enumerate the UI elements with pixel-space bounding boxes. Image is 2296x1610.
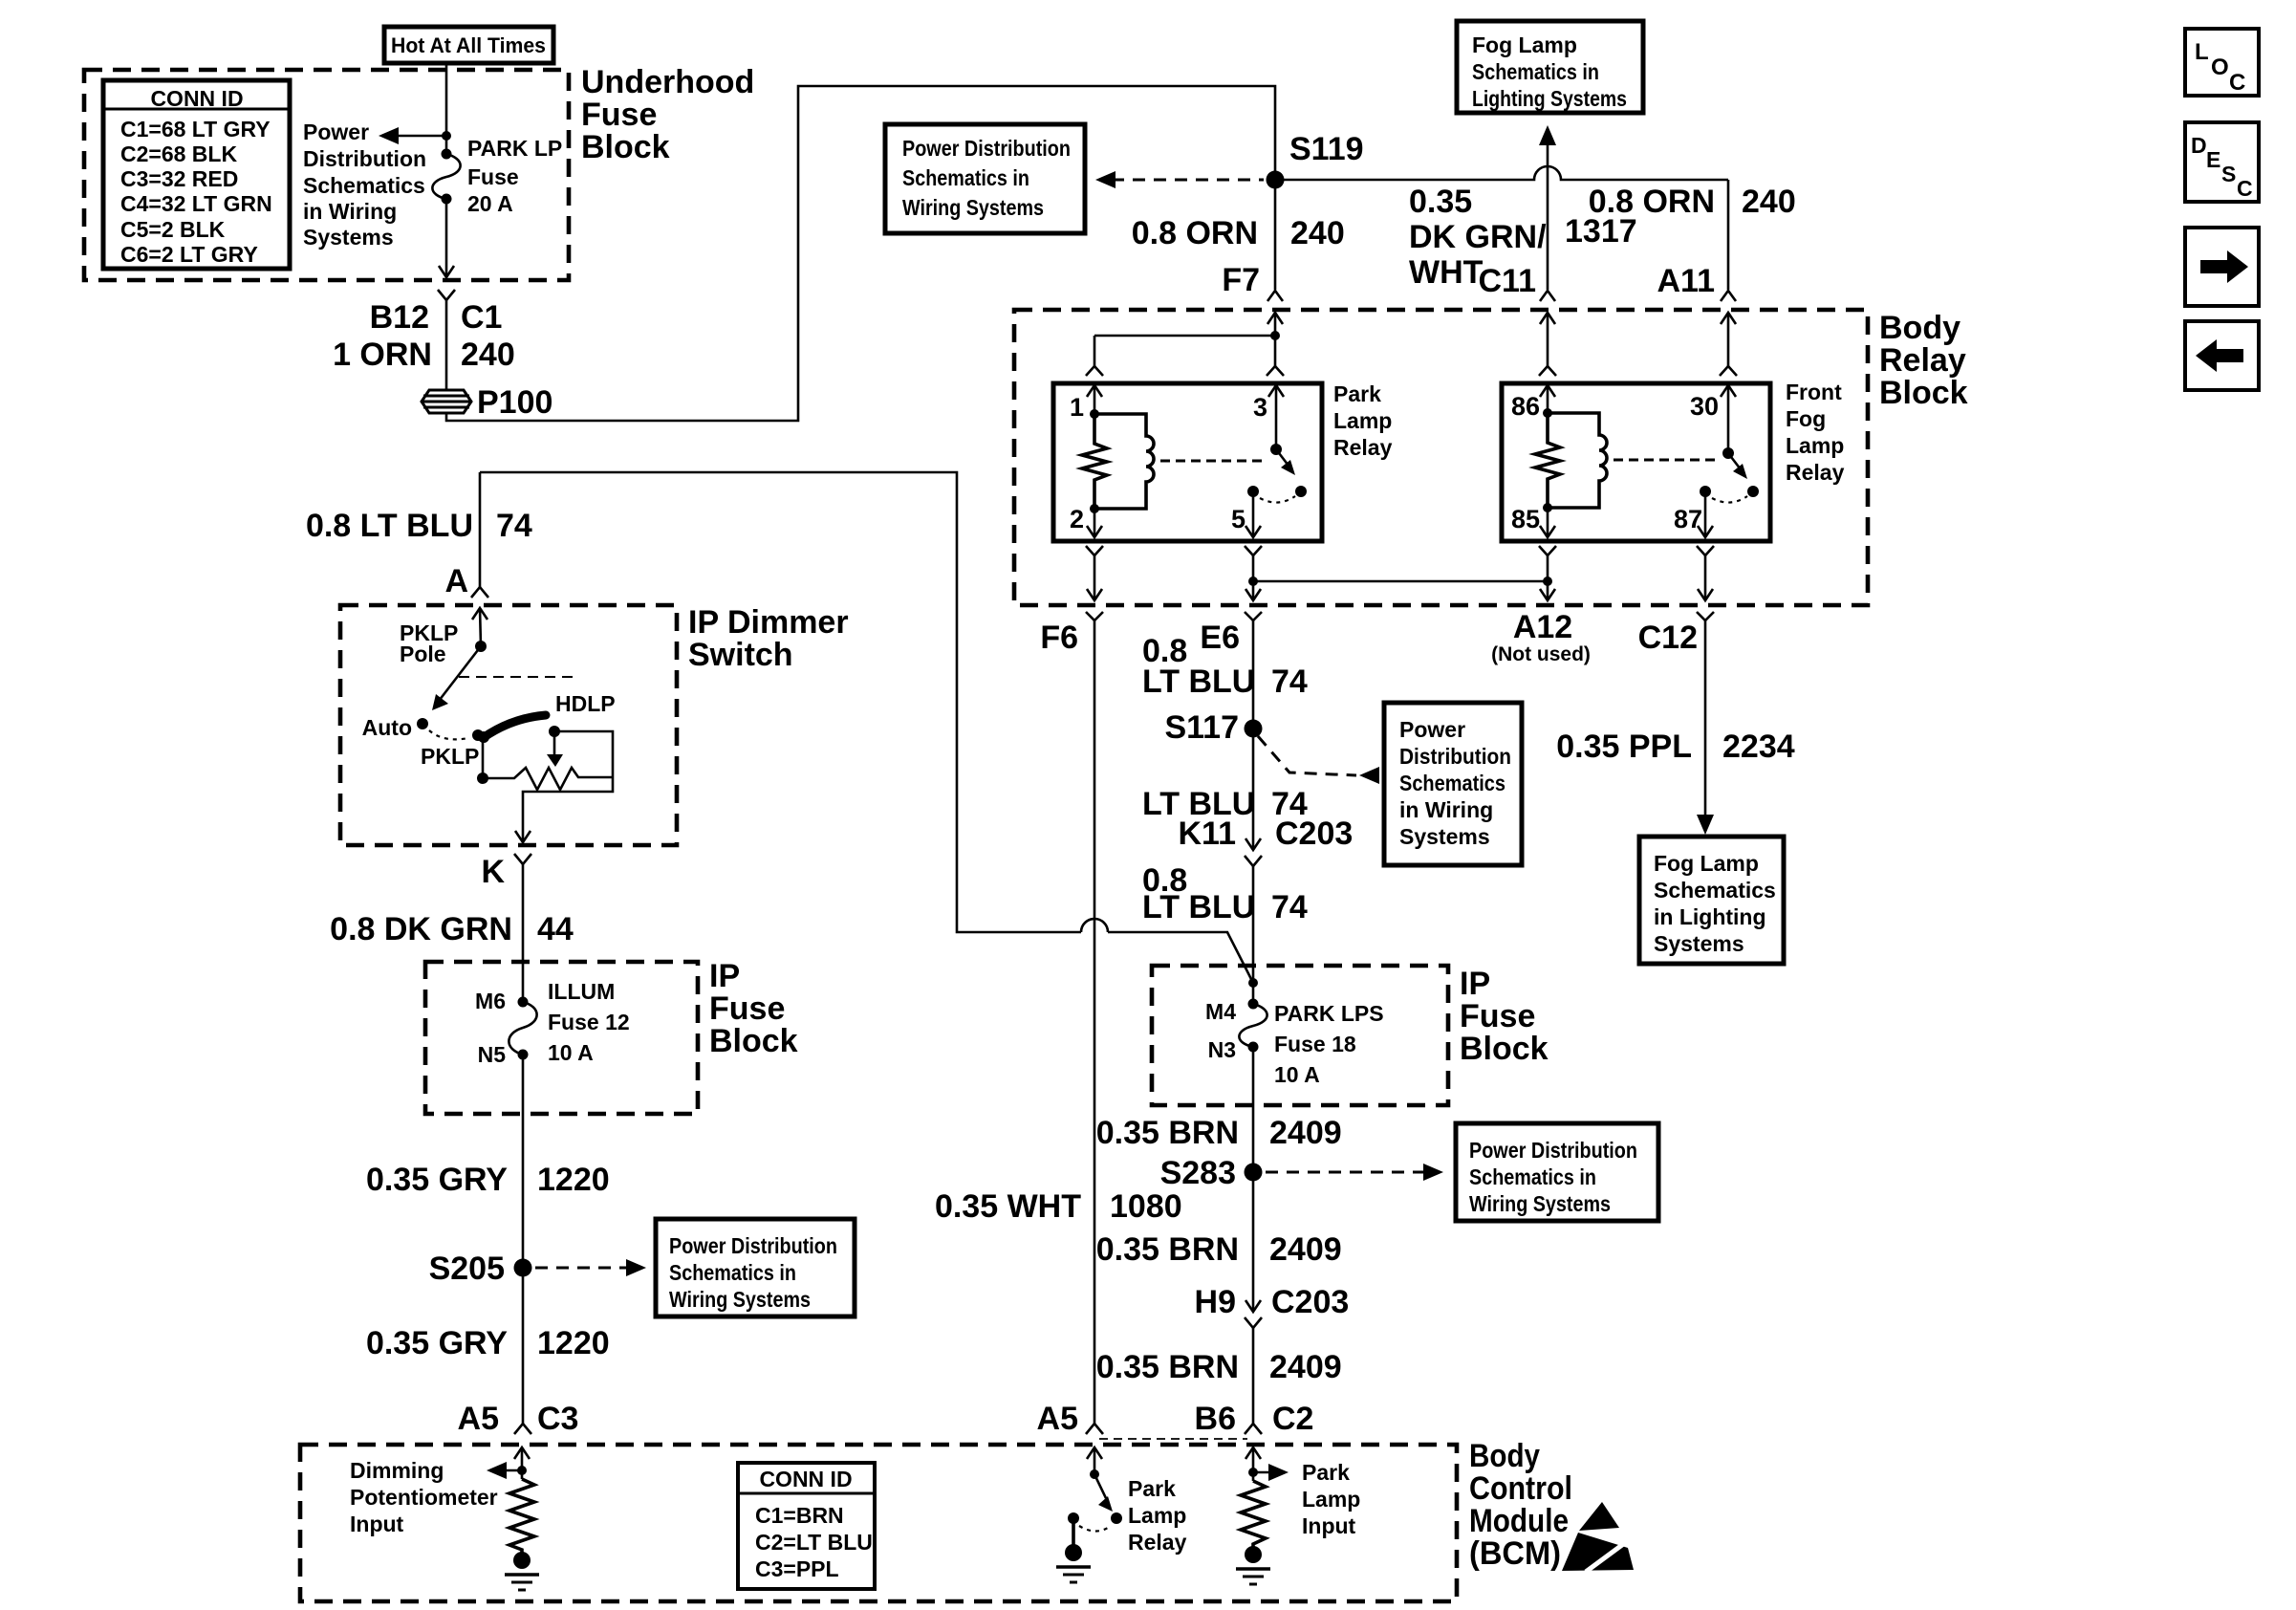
Park Lamp Relay box <box>1053 381 1393 541</box>
junction of pin1 link on F7 wire <box>1094 331 1280 366</box>
svg-text:A12: A12 <box>1513 609 1572 645</box>
svg-text:C2=68 BLK: C2=68 BLK <box>120 141 237 166</box>
socket fork above pin 1 <box>1086 366 1103 376</box>
svg-text:Hot At All Times: Hot At All Times <box>391 33 546 57</box>
dashed position line <box>459 676 575 678</box>
svg-text:ILLUM: ILLUM <box>548 979 615 1004</box>
svg-text:0.35 PPL: 0.35 PPL <box>1556 729 1692 765</box>
wire H9 down to BCM <box>1037 1328 1342 1437</box>
Fog Lamp Schematics ref box (bottom) <box>1639 837 1784 964</box>
svg-text:0.35: 0.35 <box>1409 184 1472 220</box>
svg-text:74: 74 <box>1271 664 1308 700</box>
connector A fork <box>471 587 488 620</box>
svg-text:Fuse 18: Fuse 18 <box>1274 1032 1356 1056</box>
svg-text:PARK LP: PARK LP <box>467 136 562 161</box>
svg-text:Power: Power <box>1399 717 1465 742</box>
svg-text:Park: Park <box>1128 1476 1176 1501</box>
pin 1 <box>1070 385 1102 422</box>
svg-text:5: 5 <box>1231 505 1245 533</box>
pin 86 <box>1511 385 1555 421</box>
svg-text:F6: F6 <box>1040 620 1078 656</box>
svg-text:S283: S283 <box>1160 1155 1236 1191</box>
wire A11 down from horizontal <box>1589 180 1796 299</box>
socket fork below park relay pin 2 <box>1086 546 1103 555</box>
svg-text:S117: S117 <box>1164 709 1239 746</box>
svg-text:1 ORN: 1 ORN <box>333 337 432 373</box>
socket fork above pin 3 <box>1267 366 1284 376</box>
svg-text:A11: A11 <box>1657 263 1716 299</box>
svg-text:0.35 BRN: 0.35 BRN <box>1096 1231 1239 1268</box>
park relay coil <box>1094 414 1154 509</box>
svg-text:Wiring Systems: Wiring Systems <box>669 1287 811 1312</box>
BCM dimming potentiometer input <box>350 1447 530 1536</box>
svg-text:C203: C203 <box>1271 1284 1349 1320</box>
BCM park lamp input <box>1245 1447 1360 1538</box>
svg-text:Lighting Systems: Lighting Systems <box>1472 86 1627 111</box>
svg-text:Systems: Systems <box>1654 931 1744 956</box>
svg-text:IP Dimmer: IP Dimmer <box>688 604 849 641</box>
svg-text:240: 240 <box>461 337 515 373</box>
splice S117 <box>1164 709 1262 746</box>
wire F6 down to BCM <box>1094 620 1096 1424</box>
svg-text:C11: C11 <box>1479 263 1537 299</box>
pin 30 and switch arm <box>1690 385 1759 497</box>
svg-text:S: S <box>2221 162 2236 186</box>
svg-text:H9: H9 <box>1195 1284 1236 1320</box>
svg-text:86: 86 <box>1511 392 1540 421</box>
svg-text:Lamp: Lamp <box>1302 1487 1360 1512</box>
svg-text:Pole: Pole <box>400 642 446 666</box>
svg-text:2: 2 <box>1070 505 1084 533</box>
svg-text:E: E <box>2206 147 2220 172</box>
svg-text:Systems: Systems <box>303 225 394 250</box>
connector B6/C2 fork at BCM top <box>1245 1424 1262 1434</box>
svg-text:Wiring Systems: Wiring Systems <box>1469 1191 1611 1216</box>
svg-text:Relay: Relay <box>1128 1530 1187 1555</box>
svg-text:Body: Body <box>1879 310 1960 346</box>
svg-text:85: 85 <box>1511 505 1540 533</box>
svg-text:Power Distribution: Power Distribution <box>1469 1138 1637 1163</box>
svg-text:0.8 ORN: 0.8 ORN <box>1589 184 1715 220</box>
svg-text:1080: 1080 <box>1110 1188 1182 1225</box>
svg-text:Lamp: Lamp <box>1786 433 1844 458</box>
BCM relay lever and ground <box>1056 1512 1111 1582</box>
Body Control Module BCM (dashed) <box>300 1438 1572 1601</box>
pin 87 <box>1674 486 1747 537</box>
svg-text:LT BLU: LT BLU <box>1142 664 1255 700</box>
svg-text:0.8 DK GRN: 0.8 DK GRN <box>330 911 512 947</box>
svg-text:C3=32 RED: C3=32 RED <box>120 166 238 191</box>
svg-text:A5: A5 <box>458 1401 499 1437</box>
svg-text:Fuse 12: Fuse 12 <box>548 1010 630 1034</box>
svg-text:Distribution: Distribution <box>303 146 426 171</box>
HDLP contact <box>549 691 616 737</box>
svg-text:IP: IP <box>1460 966 1490 1002</box>
splice S119 <box>1267 131 1364 189</box>
svg-text:2409: 2409 <box>1269 1231 1342 1268</box>
dotted arc Auto to PKLP <box>429 730 468 739</box>
dashed ref arrow from S119 to box <box>1095 171 1264 188</box>
svg-text:Power: Power <box>303 120 369 144</box>
Hot At All Times box <box>384 27 553 63</box>
wire pin5 to E6 with link dot <box>1245 555 1261 600</box>
svg-text:Schematics in: Schematics in <box>902 165 1029 190</box>
wire S119 right to A11 with hump over C11 wire <box>1275 166 1728 180</box>
wire C203 down to IP fuse block <box>1142 862 1308 1004</box>
svg-text:A: A <box>444 563 468 599</box>
svg-text:0.35 BRN: 0.35 BRN <box>1096 1349 1239 1385</box>
svg-text:C: C <box>2229 70 2245 96</box>
svg-text:CONN ID: CONN ID <box>150 86 243 111</box>
Power Distribution ref box (S117) <box>1384 703 1522 865</box>
arrow up into Fog Lamp box <box>1409 125 1637 299</box>
socket fork above pin 86 <box>1539 366 1556 376</box>
svg-text:IP: IP <box>709 958 740 994</box>
labels LT BLU 74 below S117 <box>1142 786 1308 822</box>
connector C11 at block border <box>1540 291 1555 366</box>
IP Dimmer Switch (dashed) <box>340 604 849 845</box>
C12 wire below block <box>1556 555 1794 835</box>
fuse PARK LPS Fuse 18 <box>1205 999 1384 1088</box>
svg-text:1220: 1220 <box>537 1162 610 1198</box>
socket fork below fog relay pin 85 <box>1539 546 1556 555</box>
svg-text:Block: Block <box>581 129 670 165</box>
svg-text:HDLP: HDLP <box>555 691 616 716</box>
svg-text:K11: K11 <box>1179 816 1237 852</box>
HDLP loop wiring <box>523 731 613 842</box>
grommet P100 <box>422 384 552 421</box>
svg-text:N5: N5 <box>478 1042 507 1067</box>
Power Distribution ref box (S283) <box>1456 1123 1658 1221</box>
wire S119 down to F7 <box>1132 180 1345 298</box>
wire A down into dimmer switch <box>306 472 532 599</box>
svg-text:Control: Control <box>1469 1470 1572 1507</box>
wire P100 loop up to S119 <box>446 86 1275 421</box>
connector H9 C203 <box>1195 1284 1350 1328</box>
wire B12 to P100, 1 ORN 240 <box>333 300 515 390</box>
svg-text:C4=32 LT GRN: C4=32 LT GRN <box>120 191 272 216</box>
pin 2 <box>1070 505 1102 537</box>
wire N5 down to S205 and BCM <box>366 1055 610 1424</box>
svg-text:in Lighting: in Lighting <box>1654 904 1766 929</box>
svg-text:PARK LPS: PARK LPS <box>1274 1001 1384 1026</box>
svg-text:(Not used): (Not used) <box>1491 643 1591 665</box>
svg-text:Schematics in: Schematics in <box>669 1260 796 1285</box>
dimmer pole wire and dot <box>400 608 487 666</box>
wire from Hot At All Times down to fuse <box>445 63 448 154</box>
dashed ref arrow from S117 <box>1258 736 1379 784</box>
wire pin2 to F6 out of block <box>1087 555 1102 600</box>
svg-text:C1: C1 <box>461 299 502 336</box>
svg-text:Relay: Relay <box>1786 460 1845 485</box>
svg-text:Relay: Relay <box>1879 342 1966 379</box>
fuse ILLUM Fuse 12 <box>475 979 630 1067</box>
fuse PARK LP 20 A <box>432 136 562 216</box>
svg-text:0.8 ORN: 0.8 ORN <box>1132 215 1258 251</box>
svg-text:Schematics in: Schematics in <box>1472 59 1599 84</box>
CONN ID table in BCM <box>738 1463 875 1589</box>
svg-text:Body: Body <box>1469 1438 1540 1474</box>
svg-text:F7: F7 <box>1222 262 1260 298</box>
pin 85 <box>1511 505 1555 537</box>
Body Relay Block (dashed) <box>1014 310 1968 605</box>
svg-text:in Wiring: in Wiring <box>303 199 397 224</box>
svg-text:2409: 2409 <box>1269 1349 1342 1385</box>
svg-text:C1=BRN: C1=BRN <box>755 1503 844 1528</box>
LOC icon box <box>2185 29 2259 96</box>
Fog Lamp Schematics in Lighting Systems (ref box, top) <box>1457 21 1643 113</box>
svg-text:30: 30 <box>1690 392 1719 421</box>
svg-text:DK GRN/: DK GRN/ <box>1409 219 1547 255</box>
pin 3 and switch arm <box>1253 385 1307 497</box>
svg-text:10 A: 10 A <box>548 1040 594 1065</box>
connector E6 fork <box>1200 612 1262 656</box>
BCM input ground <box>1236 1546 1270 1584</box>
svg-text:74: 74 <box>496 508 532 544</box>
svg-text:0.35 GRY: 0.35 GRY <box>366 1325 508 1361</box>
svg-text:B12: B12 <box>370 299 429 336</box>
dashed actuate link park relay <box>1160 460 1264 463</box>
svg-text:0.35 BRN: 0.35 BRN <box>1096 1115 1239 1151</box>
svg-text:Fog Lamp: Fog Lamp <box>1654 851 1759 876</box>
svg-text:LT BLU: LT BLU <box>1142 889 1255 925</box>
ref arrow to Power Distribution text <box>379 127 451 144</box>
svg-text:Potentiometer: Potentiometer <box>350 1485 498 1510</box>
BCM input resistor <box>1241 1481 1266 1547</box>
svg-text:Park: Park <box>1333 381 1381 406</box>
svg-text:Block: Block <box>709 1023 798 1059</box>
svg-text:C5=2 BLK: C5=2 BLK <box>120 217 226 242</box>
svg-text:Distribution: Distribution <box>1399 744 1511 769</box>
svg-text:WHT: WHT <box>1409 254 1484 291</box>
svg-text:Fog: Fog <box>1786 406 1826 431</box>
svg-text:Fuse: Fuse <box>467 164 519 189</box>
svg-text:B6: B6 <box>1195 1401 1236 1437</box>
svg-text:Power Distribution: Power Distribution <box>902 136 1071 161</box>
svg-text:Switch: Switch <box>688 637 793 673</box>
park relay coil resistor <box>1082 414 1107 513</box>
labels below S205 <box>366 1325 610 1437</box>
svg-text:C1=68 LT GRY: C1=68 LT GRY <box>120 117 271 141</box>
svg-text:E6: E6 <box>1200 620 1240 656</box>
connector A5/C3 fork at BCM <box>514 1424 531 1434</box>
svg-text:44: 44 <box>537 911 574 947</box>
svg-text:(BCM): (BCM) <box>1469 1535 1561 1572</box>
dashed ref arrow from S205 <box>535 1259 646 1276</box>
connector F6 fork <box>1040 612 1103 656</box>
socket fork below park relay pin 5 <box>1245 546 1262 555</box>
svg-text:87: 87 <box>1674 505 1702 533</box>
wire N3 down to S283 and BCM <box>1096 1047 1342 1311</box>
svg-text:0.35 GRY: 0.35 GRY <box>366 1162 508 1198</box>
dimmer loop wire: top horizontal, right vertical, bottom horizontal with hump, diagonal <box>480 472 1258 988</box>
splice S283 <box>1160 1155 1263 1191</box>
dashed ref arrow from S283 <box>1266 1164 1443 1181</box>
exit arrow K at dimmer bottom <box>481 831 531 890</box>
svg-text:Underhood: Underhood <box>581 64 754 100</box>
IP Fuse Block (dashed, left) <box>425 958 798 1114</box>
svg-text:S205: S205 <box>429 1251 505 1287</box>
socket fork above pin 30 <box>1720 366 1737 376</box>
svg-text:0.35 WHT: 0.35 WHT <box>935 1188 1081 1225</box>
svg-text:Front: Front <box>1786 380 1842 404</box>
Auto contact <box>362 715 428 740</box>
BCM park lamp relay driver <box>1087 1447 1187 1555</box>
thin dashed connector line at BCM top <box>1099 1438 1247 1440</box>
svg-text:C2: C2 <box>1272 1401 1313 1437</box>
socket fork below fog relay pin 87 <box>1697 546 1714 555</box>
A12 stub below block <box>1491 555 1591 665</box>
Power Distribution Schematics in Wiring Systems (ref box, top) <box>885 124 1085 233</box>
dashed actuate link fog relay <box>1614 459 1717 462</box>
connector F7 at block border <box>1267 291 1283 366</box>
svg-text:2409: 2409 <box>1269 1115 1342 1151</box>
svg-text:Lamp: Lamp <box>1128 1503 1186 1528</box>
labels 0.35 WHT 1080 on F6 wire <box>935 1188 1182 1225</box>
svg-text:Fog Lamp: Fog Lamp <box>1472 33 1577 57</box>
connector A11 at block border <box>1721 291 1736 366</box>
svg-text:Fuse: Fuse <box>1460 998 1535 1034</box>
svg-text:C3: C3 <box>537 1401 578 1437</box>
svg-text:C: C <box>2237 176 2253 201</box>
svg-text:1: 1 <box>1070 393 1084 422</box>
svg-text:C12: C12 <box>1638 620 1698 656</box>
svg-text:2234: 2234 <box>1722 729 1795 765</box>
splice S205 <box>429 1251 532 1287</box>
link wire pin5 to pin85 column <box>1253 577 1552 586</box>
connector A5 fork at BCM top <box>1086 1424 1103 1434</box>
PKLP contact <box>421 729 484 769</box>
BCM pot ground <box>505 1552 539 1590</box>
fog relay coil <box>1548 413 1607 508</box>
forward arrow icon box <box>2185 228 2259 306</box>
fog relay coil resistor <box>1535 413 1560 512</box>
svg-text:Wiring Systems: Wiring Systems <box>902 195 1044 220</box>
svg-text:PKLP: PKLP <box>421 744 479 769</box>
svg-text:C2=LT BLU: C2=LT BLU <box>755 1530 873 1555</box>
potentiometer resistor <box>477 768 613 790</box>
svg-text:Schematics in: Schematics in <box>1469 1164 1596 1189</box>
svg-text:Schematics: Schematics <box>303 173 425 198</box>
ESD warning symbol <box>1562 1502 1634 1572</box>
svg-text:M6: M6 <box>475 989 506 1013</box>
svg-text:in Wiring: in Wiring <box>1399 797 1493 822</box>
svg-text:Schematics: Schematics <box>1654 878 1776 903</box>
svg-text:C203: C203 <box>1275 816 1353 852</box>
svg-text:Park: Park <box>1302 1460 1350 1485</box>
svg-text:Systems: Systems <box>1399 824 1490 849</box>
svg-text:Lamp: Lamp <box>1333 408 1392 433</box>
thick wiper bar PKLP-HDLP <box>478 715 546 778</box>
svg-text:240: 240 <box>1742 184 1796 220</box>
svg-text:Dimming: Dimming <box>350 1458 444 1483</box>
svg-text:C6=2 LT GRY: C6=2 LT GRY <box>120 242 258 267</box>
dimmer wiper arm to Auto <box>432 646 481 710</box>
labels 0.35 BRN 2409 below S283 <box>1096 1231 1342 1268</box>
svg-text:Power Distribution: Power Distribution <box>669 1233 837 1258</box>
svg-text:A5: A5 <box>1037 1401 1078 1437</box>
back arrow icon box <box>2185 321 2259 390</box>
svg-text:Schematics: Schematics <box>1399 771 1505 795</box>
svg-text:0.8 LT BLU: 0.8 LT BLU <box>306 508 473 544</box>
svg-text:1220: 1220 <box>537 1325 610 1361</box>
svg-text:O: O <box>2211 54 2229 80</box>
svg-text:10 A: 10 A <box>1274 1062 1320 1087</box>
svg-text:K: K <box>481 854 505 890</box>
svg-text:Auto: Auto <box>362 715 412 740</box>
Underhood Fuse Block (dashed block) <box>84 64 754 280</box>
svg-text:S119: S119 <box>1289 131 1364 167</box>
wire E6 down to S117 <box>1142 620 1308 848</box>
svg-text:D: D <box>2191 133 2207 158</box>
pin 5 <box>1231 486 1295 537</box>
svg-text:3: 3 <box>1253 393 1267 422</box>
svg-text:74: 74 <box>1271 889 1308 925</box>
svg-text:CONN ID: CONN ID <box>759 1467 852 1491</box>
DESC icon box <box>2185 122 2259 202</box>
svg-text:Module: Module <box>1469 1503 1569 1539</box>
svg-text:Input: Input <box>1302 1513 1356 1538</box>
connector K11 C203 <box>1179 816 1354 866</box>
svg-text:Relay: Relay <box>1333 435 1393 460</box>
connector B12/C1 fork <box>370 290 503 336</box>
svg-text:Block: Block <box>1460 1031 1549 1067</box>
CONN ID table <box>103 80 290 269</box>
svg-text:20 A: 20 A <box>467 191 513 216</box>
svg-text:240: 240 <box>1290 215 1345 251</box>
svg-text:M4: M4 <box>1205 999 1236 1024</box>
svg-text:P100: P100 <box>477 384 552 421</box>
svg-text:N3: N3 <box>1208 1037 1236 1062</box>
Front Fog Lamp Relay box <box>1502 380 1845 541</box>
Power Distribution ref box (S205) <box>656 1219 855 1316</box>
svg-text:Fuse: Fuse <box>581 97 657 133</box>
BCM pot resistor <box>509 1479 534 1553</box>
Power Distribution Schematics in Wiring Systems (text, underhood) <box>303 120 426 250</box>
IP Fuse Block (dashed, right) <box>1152 966 1549 1105</box>
svg-text:Fuse: Fuse <box>709 990 785 1027</box>
svg-text:L: L <box>2195 39 2209 65</box>
wire K down to IP fuse block <box>330 864 574 1002</box>
svg-text:Block: Block <box>1879 375 1968 411</box>
wiper arrow onto pot <box>547 731 563 767</box>
svg-text:Input: Input <box>350 1512 404 1536</box>
wire fuse to underhood border with terminal arrow <box>439 199 454 277</box>
svg-text:C3=PPL: C3=PPL <box>755 1556 839 1581</box>
